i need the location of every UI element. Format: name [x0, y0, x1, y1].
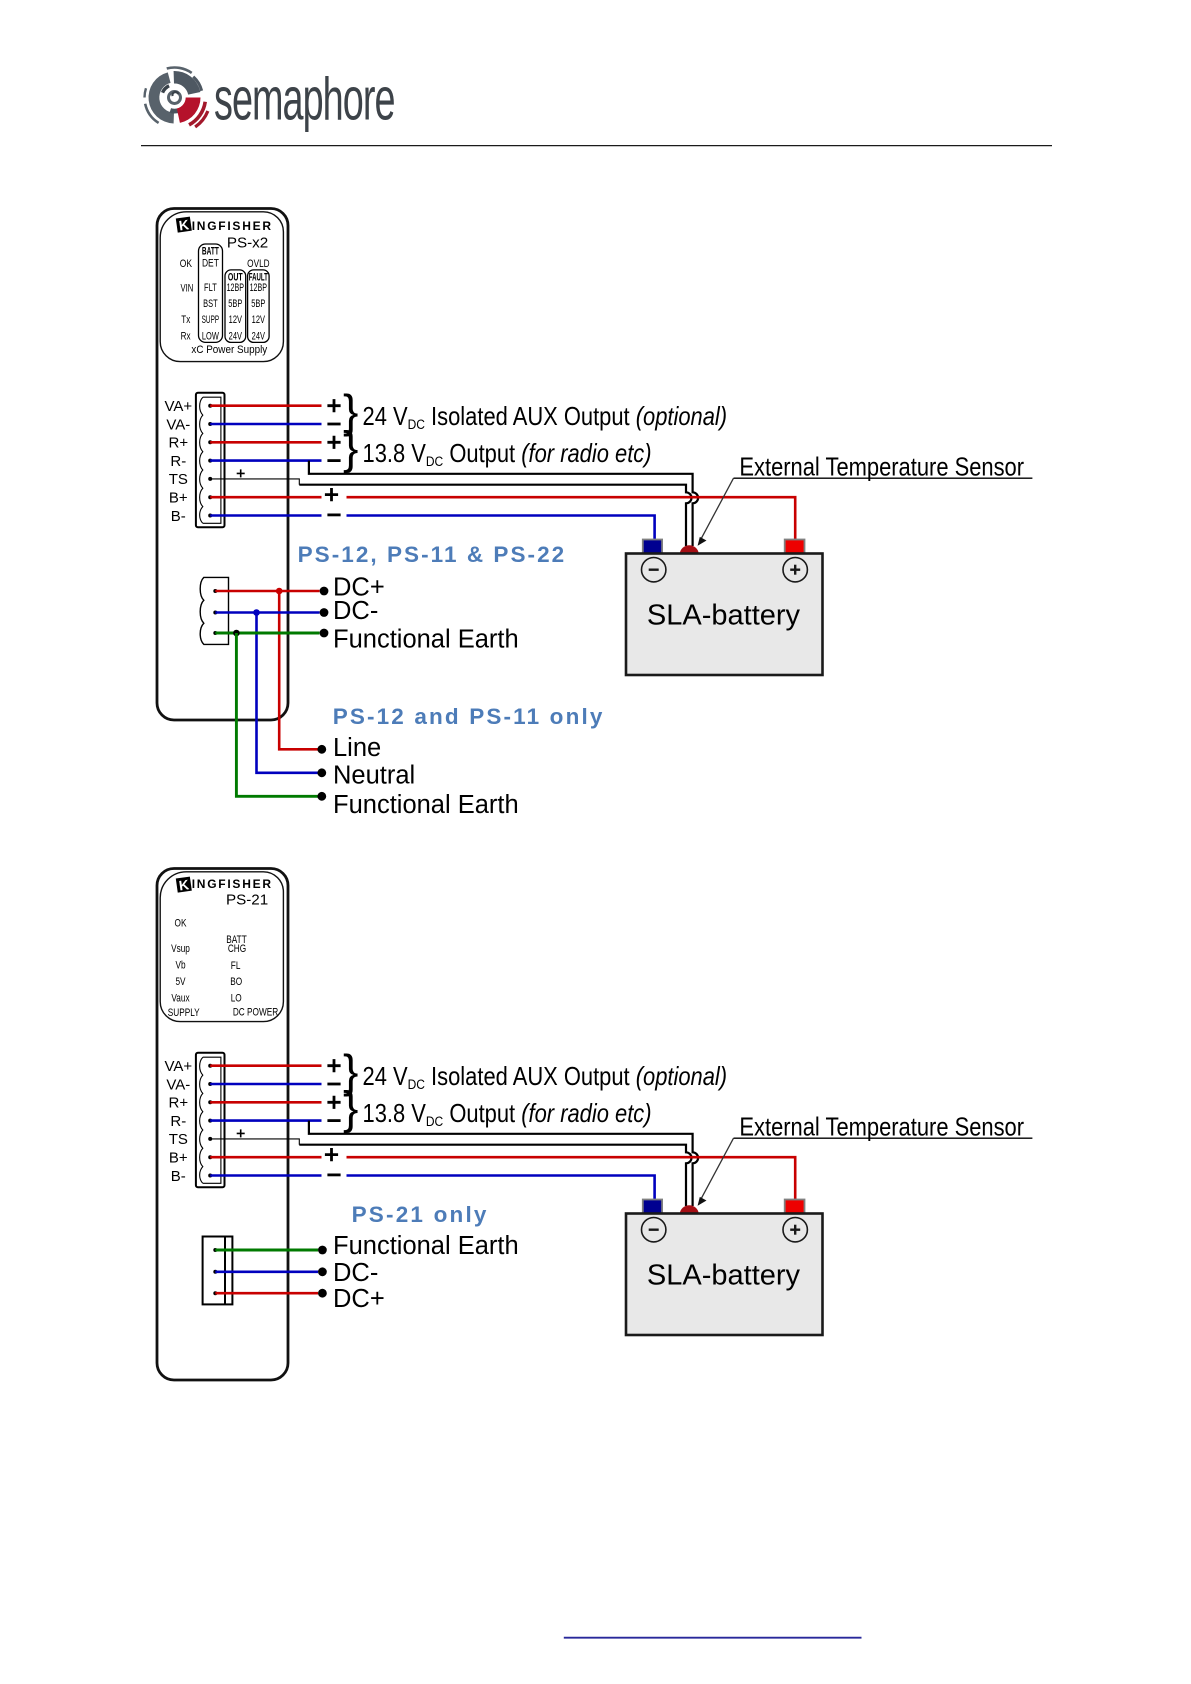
wire DC+ (PS-21) — [215, 1292, 318, 1295]
svg-text:Functional Earth: Functional Earth — [333, 791, 519, 819]
svg-text:INGFISHER: INGFISHER — [192, 219, 273, 233]
battery positive terminal (battery 1) — [785, 540, 805, 554]
svg-text:12V: 12V — [252, 314, 266, 327]
svg-text:CHG: CHG — [228, 943, 246, 955]
minus mark B- (PS-21) — [327, 1174, 340, 1177]
junction DC- — [253, 609, 260, 616]
SLA battery (battery 1) — [626, 554, 823, 676]
svg-text:DC POWER: DC POWER — [233, 1007, 278, 1019]
svg-text:TS: TS — [169, 1131, 188, 1148]
battery negative terminal (battery 1) — [643, 540, 662, 554]
module PS-21 body — [157, 869, 288, 1381]
plus mark R+ (PS-x2) — [327, 436, 340, 449]
svg-text:SLA-battery: SLA-battery — [647, 600, 801, 632]
svg-text:BST: BST — [203, 297, 218, 310]
wire DC+ (PS-12) — [215, 590, 319, 593]
wire Functional Earth (PS-21) — [215, 1249, 318, 1252]
wire R- tap to sensor (PS-21) — [309, 1121, 698, 1206]
plus mark VA+ (PS-21) — [327, 1059, 340, 1072]
junction DC+ — [276, 588, 283, 595]
svg-text:DET: DET — [202, 258, 219, 270]
svg-text:BATT: BATT — [202, 245, 219, 257]
svg-text:VA-: VA- — [166, 1076, 190, 1093]
arrow to sensor (battery 2) — [701, 1138, 734, 1199]
svg-text:B-: B- — [171, 1168, 186, 1185]
svg-text:SUPP: SUPP — [202, 313, 220, 325]
plus mark VA+ (PS-x2) — [327, 399, 340, 412]
PS-x2 KINGFISHER logo — [176, 217, 192, 234]
svg-text:12BP: 12BP — [250, 282, 267, 295]
wire B- to battery (PS-x2) — [210, 514, 321, 517]
wire VA+ (PS-21) — [210, 1064, 321, 1067]
battery minus symbol (battery 2) — [642, 1218, 666, 1242]
wire VA- (PS-x2) — [210, 423, 321, 426]
wire R- (PS-x2) — [210, 459, 321, 462]
svg-text:}: } — [343, 1082, 358, 1134]
junction Functional Earth — [233, 630, 240, 637]
battery minus symbol (battery 1) — [642, 558, 666, 582]
svg-text:24 VDC Isolated AUX Output (op: 24 VDC Isolated AUX Output (optional) — [363, 1063, 728, 1093]
svg-text:24V: 24V — [229, 330, 243, 343]
wire VA+ (PS-x2) — [210, 404, 321, 407]
footer rule — [564, 1637, 862, 1639]
svg-text:DC+: DC+ — [333, 1285, 385, 1313]
module PS-x2 label plate — [160, 212, 283, 362]
svg-text:Line: Line — [333, 734, 381, 762]
svg-text:PS-x2: PS-x2 — [227, 234, 268, 251]
header rule — [141, 145, 1052, 147]
PS-x2 LED panel OUT box — [225, 270, 246, 343]
wire R+ (PS-21) — [210, 1101, 321, 1104]
svg-text:Vsup: Vsup — [171, 943, 190, 955]
svg-text:BO: BO — [230, 976, 242, 988]
plus mark B+ (PS-x2) — [325, 488, 338, 501]
svg-text:R+: R+ — [169, 435, 189, 452]
minus mark R- (PS-21) — [327, 1119, 340, 1122]
svg-text:FL: FL — [231, 960, 241, 972]
svg-text:5V: 5V — [175, 976, 186, 988]
plus mark R+ (PS-21) — [327, 1096, 340, 1109]
svg-text:Vb: Vb — [175, 960, 185, 972]
svg-text:Functional Earth: Functional Earth — [333, 626, 519, 654]
minus mark B- (PS-x2) — [327, 514, 340, 517]
connector X2 (3-pin wavy) — [200, 577, 228, 644]
svg-text:OK: OK — [175, 917, 187, 929]
wire DC- (PS-21) — [215, 1271, 318, 1274]
svg-text:PS-21: PS-21 — [226, 891, 268, 908]
wire TS to sensor (PS-x2) — [210, 479, 299, 485]
svg-text:VIN: VIN — [180, 282, 193, 295]
svg-text:24 VDC Isolated AUX Output (op: 24 VDC Isolated AUX Output (optional) — [363, 403, 728, 433]
semaphore logo icon — [145, 68, 208, 127]
svg-text:INGFISHER: INGFISHER — [192, 877, 273, 891]
node Functional Earth 2 — [317, 792, 326, 801]
svg-text:VA-: VA- — [166, 416, 190, 433]
PS-21 KINGFISHER logo — [176, 877, 192, 894]
svg-text:FLT: FLT — [204, 282, 217, 295]
svg-text:}: } — [343, 422, 358, 474]
battery positive terminal (battery 2) — [785, 1200, 805, 1214]
plus mark B+ (PS-21) — [325, 1148, 338, 1161]
svg-text:DC-: DC- — [333, 1259, 378, 1287]
svg-text:13.8 VDC Output (for radio etc: 13.8 VDC Output (for radio etc) — [363, 1099, 652, 1129]
plus mark TS (PS-x2) — [237, 469, 245, 477]
svg-text:5BP: 5BP — [228, 298, 242, 311]
svg-text:LO: LO — [231, 992, 242, 1004]
svg-text:Rx: Rx — [181, 330, 191, 343]
svg-text:12V: 12V — [229, 314, 243, 327]
wire B+ to battery (PS-21) — [210, 1156, 321, 1159]
svg-text:PS-21 only: PS-21 only — [352, 1202, 489, 1227]
minus mark R- (PS-x2) — [327, 459, 340, 462]
svg-text:VA+: VA+ — [164, 398, 192, 415]
PS-x2 LED panel FAULT box — [248, 270, 270, 343]
minus mark VA- (PS-21) — [327, 1083, 340, 1086]
wire R- (PS-21) — [210, 1119, 321, 1122]
svg-text:DC-: DC- — [333, 597, 378, 625]
temperature sensor dome (battery 2) — [680, 1205, 699, 1213]
minus mark VA- (PS-x2) — [327, 423, 340, 426]
svg-text:Tx: Tx — [181, 314, 190, 327]
svg-text:12BP: 12BP — [227, 282, 244, 295]
PS-x2 LED panel BATT box — [199, 244, 223, 342]
svg-text:B+: B+ — [169, 490, 188, 507]
svg-text:K: K — [178, 877, 190, 893]
arrow to sensor (battery 1) — [701, 478, 734, 539]
node Line — [317, 745, 326, 754]
svg-text:R-: R- — [170, 1113, 186, 1130]
svg-text:R+: R+ — [169, 1095, 189, 1112]
svg-text:K: K — [178, 217, 190, 233]
svg-text:Neutral: Neutral — [333, 762, 415, 790]
svg-text:SUPPLY: SUPPLY — [168, 1007, 200, 1019]
svg-text:PS-12 and PS-11 only: PS-12 and PS-11 only — [333, 704, 605, 729]
svg-text:TS: TS — [169, 471, 188, 488]
node Neutral — [317, 768, 326, 777]
svg-text:R-: R- — [170, 453, 186, 470]
SLA battery (battery 2) — [626, 1214, 823, 1336]
connector X1 (7-pin) — [196, 393, 225, 528]
wire TS to sensor (PS-21) — [210, 1139, 299, 1145]
svg-text:5BP: 5BP — [251, 298, 265, 311]
wire R- tap to sensor (PS-x2) — [309, 461, 698, 546]
svg-text:OK: OK — [180, 258, 193, 270]
battery plus symbol (battery 2) — [783, 1218, 807, 1242]
svg-text:semaphore: semaphore — [214, 66, 395, 133]
svg-text:PS-12, PS-11 & PS-22: PS-12, PS-11 & PS-22 — [298, 542, 567, 567]
svg-text:Vaux: Vaux — [171, 992, 189, 1004]
battery negative terminal (battery 2) — [643, 1200, 662, 1214]
svg-text:xC Power Supply: xC Power Supply — [191, 345, 268, 357]
connector X4 (3-pin) — [203, 1237, 233, 1305]
wire B- to battery (PS-21) — [210, 1174, 321, 1177]
wire VA- (PS-21) — [210, 1083, 321, 1086]
svg-text:OVLD: OVLD — [247, 258, 269, 271]
battery plus symbol (battery 1) — [783, 558, 807, 582]
svg-text:24V: 24V — [252, 330, 266, 343]
connector X3 (7-pin) — [196, 1053, 225, 1188]
svg-text:13.8 VDC Output (for radio etc: 13.8 VDC Output (for radio etc) — [363, 439, 652, 469]
wire R+ (PS-x2) — [210, 441, 321, 444]
svg-text:SLA-battery: SLA-battery — [647, 1260, 801, 1292]
svg-text:B+: B+ — [169, 1150, 188, 1167]
svg-text:VA+: VA+ — [164, 1058, 192, 1075]
svg-text:B-: B- — [171, 508, 186, 525]
temperature sensor dome (battery 1) — [680, 545, 699, 553]
wire DC- (PS-12) — [215, 611, 319, 614]
module PS-x2 body — [157, 209, 288, 721]
svg-text:LOW: LOW — [202, 330, 219, 343]
wire Functional Earth (PS-12) — [215, 632, 319, 635]
svg-text:Functional Earth: Functional Earth — [333, 1232, 519, 1260]
plus mark TS (PS-21) — [237, 1129, 245, 1137]
module PS-21 label plate — [160, 872, 283, 1022]
wire B+ to battery (PS-x2) — [210, 496, 321, 499]
